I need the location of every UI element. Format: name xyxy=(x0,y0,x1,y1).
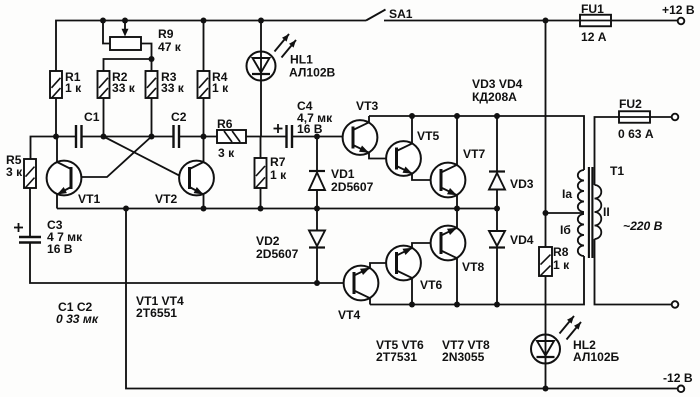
label II xyxy=(603,205,610,219)
transistor VT2 xyxy=(179,161,214,196)
wire VT6 emitter to VT8 base xyxy=(412,243,442,249)
wire y=136 line left of C1 + R5 top lead xyxy=(31,137,77,160)
transformer T1 secondary winding II xyxy=(595,185,602,239)
wire upper collector rail to transformer primary top xyxy=(368,116,370,153)
wire VT2 collector xyxy=(203,137,205,163)
svg-text:R8: R8 xyxy=(553,245,569,259)
node dots collector rail xyxy=(409,113,500,119)
label VT6 xyxy=(420,278,442,292)
wire VD3 bottom lead xyxy=(496,190,498,209)
wire VD1 top lead xyxy=(316,137,318,172)
label R9 xyxy=(158,27,182,54)
svg-text:FU1: FU1 xyxy=(581,2,604,16)
wire R3 bottom lead xyxy=(151,98,153,137)
transistor VT4 xyxy=(344,266,379,301)
node dots emitter rail xyxy=(123,206,500,212)
svg-text:HL1: HL1 xyxy=(290,53,313,67)
svg-text:0 33 мк: 0 33 мк xyxy=(56,312,99,326)
svg-text:3 к: 3 к xyxy=(6,165,23,179)
label R5 xyxy=(6,153,23,179)
capacitor C4 4.7uF xyxy=(274,124,293,148)
resistor R3 33k xyxy=(146,71,158,98)
wire top rail left + R1 top lead xyxy=(56,21,366,72)
label C2 xyxy=(171,110,187,124)
capacitor C2 xyxy=(174,125,180,148)
label FU2 xyxy=(618,97,654,141)
wire R8 top lead xyxy=(545,213,547,247)
svg-text:VT3: VT3 xyxy=(356,99,378,113)
svg-text:C2: C2 xyxy=(171,110,187,124)
wire top rail right section to +12V terminal xyxy=(384,20,678,22)
svg-text:R6: R6 xyxy=(217,117,233,131)
svg-text:2N3055: 2N3055 xyxy=(442,350,485,364)
node dot bottom rail HL2 xyxy=(543,386,549,392)
resistor R4 1k xyxy=(198,71,210,98)
label R3 xyxy=(161,70,185,95)
resistor R8 1k xyxy=(539,247,552,276)
svg-text:T1: T1 xyxy=(610,164,624,178)
svg-text:R9: R9 xyxy=(158,27,174,41)
wire VT7 collector xyxy=(456,116,458,165)
wire x=126 drop + bottom rail to -12V xyxy=(126,209,678,389)
node dots top rail xyxy=(100,18,549,24)
wire R6 to C4 node xyxy=(246,136,287,138)
svg-text:2Т7531: 2Т7531 xyxy=(376,350,417,364)
wire R4 bottom lead xyxy=(203,98,205,137)
svg-text:VD3: VD3 xyxy=(510,177,534,191)
wire VD2 bottom lead xyxy=(316,248,318,284)
wire R8 bottom lead through rail to HL2 xyxy=(545,276,547,335)
wire FU2 to ~220V terminal top xyxy=(650,116,672,118)
wire cross-coupling C1 node to VT2 base xyxy=(104,137,190,178)
wire R2-R3 top link (y=59) xyxy=(104,59,152,71)
svg-text:16 В: 16 В xyxy=(47,242,73,256)
node dot centre tap xyxy=(543,210,549,216)
wire y=136 C2 to R6 xyxy=(179,136,217,138)
transistor VT1 xyxy=(47,161,82,196)
diode VD1 xyxy=(309,171,325,190)
label Ia xyxy=(562,187,572,201)
diode VD3 xyxy=(489,172,505,190)
svg-text:16 В: 16 В xyxy=(297,122,323,136)
label VD4 xyxy=(510,233,534,247)
wire VT6 collector down xyxy=(411,278,413,305)
node dots y=136 line xyxy=(53,134,320,140)
wire VD4 bottom lead xyxy=(496,248,498,305)
svg-text:1 к: 1 к xyxy=(212,81,229,95)
wire R5 bottom to C3 xyxy=(29,188,31,237)
label VT7 VT8 type xyxy=(442,338,490,364)
svg-text:1 к: 1 к xyxy=(270,168,287,182)
wire R7 bottom lead xyxy=(260,188,262,209)
label R2 xyxy=(112,70,136,95)
wire R9 left lead xyxy=(103,21,110,44)
label R7 xyxy=(270,155,287,182)
label -12V xyxy=(663,371,693,385)
capacitor C3 4.7uF electrolytic xyxy=(14,223,41,243)
terminal ~220V top xyxy=(672,114,679,121)
wire VD2 top lead xyxy=(316,209,318,231)
terminal +12V xyxy=(678,18,685,25)
transistor VT8 xyxy=(431,226,466,261)
wire VT1 emitter lead xyxy=(56,194,58,209)
wire VD3 top lead xyxy=(496,116,498,172)
label VT8 xyxy=(462,260,484,274)
wire R9 right lead xyxy=(141,44,152,60)
svg-text:FU2: FU2 xyxy=(619,97,642,111)
svg-text:VT6: VT6 xyxy=(420,278,442,292)
label VD3 VD4 type xyxy=(472,77,523,104)
wire y=136 line C1..C2 xyxy=(82,136,174,138)
potentiometer R9 47k xyxy=(110,21,141,51)
label C1 xyxy=(84,110,100,124)
transistor VT3 xyxy=(343,120,378,155)
resistor R2 33k xyxy=(98,71,110,98)
label ~220V xyxy=(623,219,663,233)
wire FU1 vertical tap at x=545 xyxy=(545,21,547,214)
label VT2 xyxy=(155,192,177,206)
svg-text:VT5: VT5 xyxy=(417,129,439,143)
wire R2 bottom lead xyxy=(103,98,105,137)
label R4 xyxy=(212,70,229,95)
diode VD4 xyxy=(489,231,505,248)
label R6 xyxy=(217,117,235,160)
svg-text:VT7: VT7 xyxy=(463,147,485,161)
label C4 xyxy=(297,99,333,136)
svg-text:SA1: SA1 xyxy=(389,7,413,21)
svg-text:+12 В: +12 В xyxy=(662,3,695,17)
wire C4 to VT3 base xyxy=(292,136,343,138)
wire collector rail y=116 xyxy=(369,116,584,170)
svg-text:VT4: VT4 xyxy=(338,308,360,322)
wire VT5 collector xyxy=(411,116,413,144)
label FU1 xyxy=(581,2,607,44)
label VD3 xyxy=(510,177,534,191)
svg-text:2D5607: 2D5607 xyxy=(256,247,299,261)
svg-text:Iб: Iб xyxy=(560,223,571,237)
svg-text:VD1: VD1 xyxy=(331,167,355,181)
label VT3 xyxy=(356,99,378,113)
svg-text:КД208А: КД208А xyxy=(472,90,517,104)
svg-text:VD4: VD4 xyxy=(510,233,534,247)
label HL1 xyxy=(289,53,336,80)
svg-text:0 63 А: 0 63 А xyxy=(618,127,654,141)
wire VT7 emitter down xyxy=(456,195,458,209)
label SA1 xyxy=(389,7,413,21)
fuse FU2 0.63A xyxy=(619,111,650,123)
LED HL1 xyxy=(247,34,297,81)
node dots lower collector rail xyxy=(409,302,500,308)
svg-text:C1: C1 xyxy=(84,110,100,124)
wire C3 bottom + VT4 base line (y=283) xyxy=(30,243,344,284)
svg-text:47 к: 47 к xyxy=(158,40,182,54)
label VT1 xyxy=(78,192,100,206)
svg-text:2Т6551: 2Т6551 xyxy=(136,306,177,320)
label C3 xyxy=(47,218,83,256)
svg-text:АЛ102Б: АЛ102Б xyxy=(573,350,620,364)
svg-text:12 А: 12 А xyxy=(581,30,607,44)
wire HL1 top lead xyxy=(260,21,262,53)
wire VT4 emitter to VT6 base xyxy=(370,263,397,269)
label VT5 xyxy=(417,129,439,143)
terminal ~220V bottom xyxy=(672,301,679,308)
wire secondary bottom to ~220V terminal xyxy=(595,239,672,305)
label +12V xyxy=(662,3,695,17)
label VD1 xyxy=(331,167,374,194)
wire transformer centre tap xyxy=(546,212,585,214)
svg-text:1 к: 1 к xyxy=(65,81,82,95)
fuse FU1 12A xyxy=(580,15,611,27)
resistor R5 3k xyxy=(24,159,36,188)
label VT4 xyxy=(338,308,360,322)
label R1 xyxy=(65,70,82,95)
transistor VT5 xyxy=(386,141,421,176)
label VT1 VT4 type xyxy=(136,294,184,320)
wire VT4 collector down xyxy=(369,298,371,305)
label HL2 xyxy=(573,338,620,364)
svg-text:VT2: VT2 xyxy=(155,192,177,206)
wire HL2 bottom lead xyxy=(545,363,547,389)
label VT5 VT6 type xyxy=(376,338,424,364)
capacitor C1 xyxy=(76,125,82,148)
transistor VT7 xyxy=(431,163,466,198)
svg-text:R7: R7 xyxy=(270,155,286,169)
label VD2 xyxy=(256,234,299,261)
label C1 C2 type xyxy=(56,300,99,326)
label T1 xyxy=(610,164,624,178)
terminal -12V xyxy=(678,386,685,393)
wire R1 bottom lead xyxy=(55,98,57,137)
wire VT3 emitter to VT5 base xyxy=(369,153,397,159)
transformer T1 primary winding Ia+Ib xyxy=(578,170,584,256)
wire VT5 emitter to VT7 base xyxy=(412,174,442,181)
svg-text:II: II xyxy=(603,205,610,219)
label R8 xyxy=(553,245,570,272)
svg-text:~220 В: ~220 В xyxy=(623,219,663,233)
resistor R6 3k xyxy=(217,130,246,143)
wire R4 top lead xyxy=(203,21,205,72)
wire cross-coupling C2 node to VT1 base xyxy=(72,137,152,178)
LED HL2 xyxy=(531,316,581,364)
node dot VD2 base line xyxy=(314,280,320,286)
switch SA1 xyxy=(366,10,386,21)
wire VT2 emitter lead xyxy=(203,194,205,209)
wire HL1 bottom lead xyxy=(260,80,262,137)
wire VD1 bottom lead xyxy=(316,190,318,209)
svg-text:1 к: 1 к xyxy=(553,258,570,272)
node dot R9-R3 xyxy=(149,56,155,62)
wire VT8 collector down xyxy=(456,258,458,305)
wire VD4 top lead xyxy=(496,209,498,232)
svg-text:VD3 VD4: VD3 VD4 xyxy=(472,77,523,91)
svg-text:Iа: Iа xyxy=(562,187,572,201)
wire lower collector rail to transformer primary bottom xyxy=(370,256,584,305)
svg-text:АЛ102В: АЛ102В xyxy=(289,66,336,80)
transformer T1 core xyxy=(589,167,593,258)
label VT7 xyxy=(463,147,485,161)
svg-text:VT1: VT1 xyxy=(78,192,100,206)
svg-text:VD2: VD2 xyxy=(256,234,280,248)
wire emitter rail (y=208.5) xyxy=(57,208,497,210)
svg-text:3 к: 3 к xyxy=(218,146,235,160)
svg-text:-12 В: -12 В xyxy=(663,371,693,385)
wire R7 top lead xyxy=(260,137,262,159)
wire secondary top to FU2 xyxy=(595,117,620,185)
label Ib xyxy=(560,223,571,237)
wire VT1 collector xyxy=(56,137,58,163)
svg-text:33 к: 33 к xyxy=(161,81,185,95)
resistor R1 1k xyxy=(50,71,62,98)
svg-text:VT8: VT8 xyxy=(462,260,484,274)
resistor R7 1k xyxy=(255,158,267,188)
diode VD2 xyxy=(309,231,325,248)
svg-text:2D5607: 2D5607 xyxy=(331,180,374,194)
wire VT8 emitter up xyxy=(456,209,458,229)
svg-text:33 к: 33 к xyxy=(112,81,136,95)
transistor VT6 xyxy=(386,246,421,281)
